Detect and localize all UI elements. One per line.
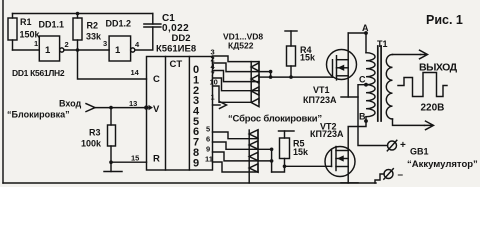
svg-text:15k: 15k [293,147,309,157]
svg-text:5: 5 [206,125,210,134]
svg-text:DD1.1: DD1.1 [39,20,65,30]
svg-text:–: – [398,170,404,181]
svg-text:6: 6 [206,135,210,144]
svg-text:15k: 15k [300,53,316,63]
input arrow Вход Блокировка [86,104,95,112]
wire top supply rail [13,13,153,15]
node R2 top junction [76,12,80,16]
svg-text:Рис. 1: Рис. 1 [426,13,463,27]
ground [104,162,122,171]
wire upper anode bus [258,62,260,103]
node R3 top [109,106,113,110]
wire upper cathode bus [250,62,252,103]
VT1 source bar [341,96,358,98]
node R3 bottom [109,160,113,164]
svg-text:+: + [400,140,406,151]
wire pin10 output 4 [213,86,252,102]
wire C tap to battery plus [358,85,388,146]
svg-text:К561ИЕ8: К561ИЕ8 [156,44,196,55]
diode VD2 [251,75,259,83]
transformer core [378,46,381,121]
battery minus terminal [384,169,394,180]
svg-text:GB1: GB1 [410,147,429,157]
svg-text:C: C [153,74,160,85]
diode VD5 [249,130,258,138]
wire lower anode bus [257,130,259,172]
wire VT2 gate line [272,166,332,172]
diode VD4 [251,98,259,106]
wire lower cathode bus [248,130,250,183]
wire R3 to R pin15 [111,161,147,163]
svg-text:2: 2 [65,40,69,49]
svg-text:100k: 100k [81,139,102,149]
svg-text:13: 13 [129,99,137,108]
svg-text:ВЫХОД: ВЫХОД [419,62,458,74]
battery plus terminal [387,140,397,151]
wire pin1 arrow Сброс блокировки [213,102,227,109]
wire minus terminal to rail [375,174,384,183]
diode VD8 [249,164,258,172]
node C center tap [364,83,368,87]
svg-text:14: 14 [131,68,140,77]
wire pin6 output 7 [213,142,272,149]
svg-text:11: 11 [205,155,213,164]
resistor R3 [108,108,116,163]
wire DD1.1 out to DD1.2 in [64,49,109,51]
wire pin5 output 6 [213,132,259,139]
wire VT1 gate line [271,76,333,78]
node B [364,119,368,123]
svg-text:DD2: DD2 [172,33,191,44]
wire pin3 output 0 [213,56,260,62]
diode VD1 [251,63,259,71]
wire input to V pin13 [95,107,147,109]
svg-text:10: 10 [210,78,218,87]
svg-text:Вход: Вход [59,99,82,109]
output arrow bottom [425,121,434,130]
frame left border [2,0,4,183]
svg-text:4: 4 [135,40,140,49]
wire pin7 output 3 [213,78,260,91]
wire pin2 output 1 [213,63,271,72]
svg-text:CT: CT [170,59,183,70]
node A [364,31,368,35]
wire B to VT2 drain [348,121,366,150]
svg-text:B: B [359,112,366,122]
op-amp U1: inverter DD1.1 [39,36,64,61]
bottom common rail [3,182,376,184]
svg-text:3: 3 [103,39,107,48]
resistor R2 [73,14,82,51]
svg-text:150k: 150k [20,30,41,40]
wire right bus lower [271,149,273,172]
node R5 bottom [283,165,287,169]
pin number labels [34,39,218,164]
svg-text:1: 1 [45,45,51,56]
transistor Q2 VT2 KP723A [325,147,355,184]
svg-text:220В: 220В [421,103,445,114]
svg-text:1: 1 [211,93,215,102]
output arrow top [420,50,428,59]
svg-text:A: A [362,23,369,33]
wire pin4 output 2 [213,71,260,82]
diode VD3 [251,87,259,95]
inverter DD1.2 [109,36,135,61]
svg-text:1: 1 [34,39,38,48]
svg-text:R3: R3 [89,128,101,138]
svg-text:9: 9 [206,145,210,154]
svg-text:R: R [153,154,160,165]
VT2 source bar [341,182,358,184]
IC internal labels [45,45,200,169]
svg-text:КП723А: КП723А [310,129,344,139]
svg-text:T1: T1 [377,39,388,49]
diode VD7 [249,152,258,160]
svg-text:КП723А: КП723А [303,95,337,105]
capacitor C1 [144,14,161,28]
svg-text:DD1.2: DD1.2 [106,19,132,29]
svg-text:33k: 33k [86,32,102,42]
wire to DD2 pin14 C input [78,50,147,79]
svg-text:15: 15 [131,154,139,163]
svg-text:R1: R1 [20,17,32,27]
resistor R1 [8,14,17,51]
transformer T1 primary [366,33,375,121]
svg-text:V: V [153,104,160,115]
wire VT1 drain to node A [348,32,366,34]
V input dynamic wedge [144,105,148,109]
svg-text:DD1 К561ЛН2: DD1 К561ЛН2 [12,68,65,78]
svg-text:“Аккумулятор”: “Аккумулятор” [407,159,478,170]
resistor R5 [279,131,295,166]
transformer T1 secondary [386,55,424,126]
wire right bus upper [270,72,272,78]
svg-text:“Сброс блокировки”: “Сброс блокировки” [228,114,322,125]
wire DD1.2 out to C1 [135,27,153,50]
svg-text:КД522: КД522 [228,41,254,51]
waveform 220V [398,73,447,97]
svg-text:9: 9 [193,157,199,169]
svg-text:VT1: VT1 [313,85,330,95]
wire pin11 output 9 [213,162,259,172]
svg-text:C: C [359,75,366,85]
node oscillator mid [76,48,80,52]
wire tap row [259,76,271,78]
svg-text:R2: R2 [87,21,99,31]
resistor R4 [285,31,297,77]
wire R1 to DD1.1 input [13,49,40,51]
node R4 bottom [289,75,293,79]
diode VD6 [249,141,258,149]
svg-text:1: 1 [115,45,121,56]
counter U2 DD2 K561IE8 box [147,57,213,171]
svg-text:“Блокировка”: “Блокировка” [7,110,70,120]
transistor Q1 VT1 KP723A [327,33,357,97]
wire pin9 output 8 [213,152,272,161]
